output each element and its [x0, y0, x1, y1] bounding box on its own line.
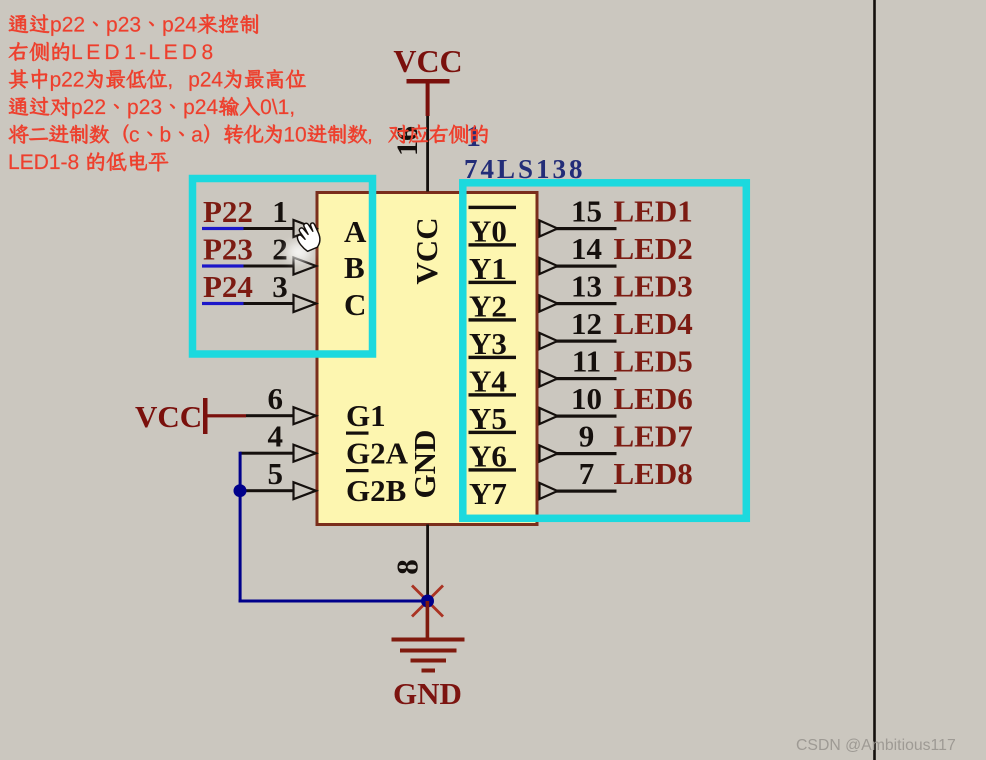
- svg-text:P24: P24: [203, 269, 253, 304]
- wire pin 10: [556, 415, 617, 418]
- power port VCC (left, pin6): [135, 398, 246, 434]
- svg-text:LED7: LED7: [614, 419, 693, 454]
- pin 15 arrow symbol: [540, 221, 558, 237]
- svg-text:1: 1: [272, 194, 288, 229]
- svg-text:G1: G1: [346, 398, 386, 433]
- svg-text:2: 2: [272, 232, 288, 267]
- svg-text:LED4: LED4: [614, 306, 693, 341]
- pin Y0 label with overline: [469, 206, 517, 249]
- svg-text:GND: GND: [407, 430, 442, 499]
- svg-text:VCC: VCC: [135, 399, 202, 434]
- pin 4 arrow symbol: [294, 445, 317, 462]
- svg-text:6: 6: [268, 381, 284, 416]
- frame border line (schematic sheet edge): [873, 0, 876, 760]
- pin Y1 label with overline: [469, 243, 517, 286]
- svg-text:LED5: LED5: [614, 344, 693, 379]
- highlight box 1 (inputs): [193, 179, 373, 355]
- pin Y3 label with overline: [469, 318, 517, 361]
- svg-text:15: 15: [571, 194, 602, 229]
- svg-text:13: 13: [571, 269, 602, 304]
- pin 7 arrow symbol: [540, 483, 558, 499]
- pin 10 arrow symbol: [540, 408, 558, 424]
- wire pin4: [240, 452, 294, 455]
- svg-text:10: 10: [571, 381, 602, 416]
- svg-text:11: 11: [572, 344, 601, 379]
- highlight box 2 (outputs): [463, 183, 747, 519]
- pin G2B label with overline: [346, 469, 406, 508]
- mouse cursor (hand): [287, 220, 324, 262]
- pin 2 arrow symbol: [294, 258, 317, 275]
- wire pin 3: [244, 302, 294, 305]
- pin 6 arrow symbol: [294, 407, 317, 424]
- svg-text:B: B: [344, 250, 365, 285]
- pin 13 arrow symbol: [540, 296, 558, 312]
- pin 5 arrow symbol: [294, 482, 317, 499]
- svg-text:CSDN @Ambitious117: CSDN @Ambitious117: [796, 737, 956, 754]
- wire pin6: [246, 414, 294, 417]
- pin Y4 label with overline: [469, 356, 517, 399]
- svg-text:LED1: LED1: [614, 194, 693, 229]
- svg-text:G2A: G2A: [346, 436, 409, 471]
- pin 1 arrow symbol: [294, 220, 317, 237]
- svg-text:P23: P23: [203, 232, 253, 267]
- svg-text:G2B: G2B: [346, 473, 406, 508]
- wire pin 12: [556, 340, 617, 343]
- junction pin5/pin4 net: [234, 484, 247, 497]
- wire to ground: [426, 601, 430, 639]
- svg-text:A: A: [344, 214, 367, 249]
- wire pin 9: [556, 452, 617, 455]
- svg-text:14: 14: [571, 231, 602, 266]
- power port VCC (top): [393, 43, 462, 116]
- svg-text:LED2: LED2: [614, 231, 693, 266]
- wire pin 13: [556, 302, 617, 305]
- wire pin 7: [556, 490, 617, 493]
- pin 11 arrow symbol: [540, 371, 558, 387]
- no-ERC cross marker: [412, 586, 443, 617]
- junction at pin8/GND: [421, 595, 434, 608]
- svg-text:LED8: LED8: [614, 456, 693, 491]
- pin Y6 label with overline: [469, 431, 517, 474]
- svg-text:VCC: VCC: [393, 43, 462, 79]
- svg-text:C: C: [344, 287, 366, 322]
- pin G2A label with overline: [346, 432, 409, 471]
- svg-text:P22: P22: [203, 194, 253, 229]
- svg-text:LED6: LED6: [614, 381, 693, 416]
- svg-text:8: 8: [390, 559, 425, 575]
- wire pin 1: [244, 227, 294, 230]
- pin Y5 label with overline: [469, 393, 517, 436]
- wire pin 11: [556, 377, 617, 380]
- svg-text:Y7: Y7: [469, 476, 507, 511]
- pin 12 arrow symbol: [540, 333, 558, 349]
- svg-text:3: 3: [272, 269, 288, 304]
- wire net P23 (blue segment): [202, 264, 244, 267]
- wire pin8: [426, 525, 429, 602]
- svg-text:9: 9: [579, 419, 595, 454]
- pin 9 arrow symbol: [540, 446, 558, 462]
- wire pin16 to VCC: [426, 116, 429, 192]
- pin 14 arrow symbol: [540, 258, 558, 274]
- pin 3 arrow symbol: [294, 295, 317, 312]
- svg-text:1: 1: [466, 120, 481, 153]
- svg-text:5: 5: [268, 456, 284, 491]
- IC U1 74LS138 body: [317, 193, 537, 525]
- wire net P24 (blue segment): [202, 302, 244, 305]
- wire pin 2: [244, 265, 294, 268]
- wire net P22 (blue segment): [202, 227, 244, 230]
- ground symbol GND: [392, 638, 465, 673]
- svg-text:4: 4: [268, 419, 284, 454]
- svg-text:7: 7: [579, 456, 595, 491]
- wire pin 14: [556, 265, 617, 268]
- svg-text:VCC: VCC: [409, 217, 444, 284]
- svg-text:LED3: LED3: [614, 269, 693, 304]
- svg-text:GND: GND: [393, 676, 462, 711]
- wire blue vertical (net to GND): [239, 452, 242, 603]
- pin Y2 label with overline: [469, 281, 517, 324]
- pin Y7 label with overline: [469, 468, 517, 511]
- svg-text:12: 12: [571, 306, 602, 341]
- wire blue horizontal to pin8: [239, 600, 429, 603]
- wire pin 15: [556, 227, 617, 230]
- wire pin5: [240, 489, 294, 492]
- annotation text (red): [9, 14, 488, 172]
